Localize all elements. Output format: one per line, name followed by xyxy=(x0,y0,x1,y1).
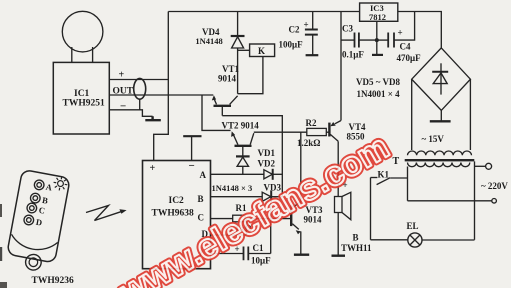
svg-text:A: A xyxy=(200,170,207,180)
transistor VT3 9014 xyxy=(291,132,301,254)
svg-text:1.2kΩ: 1.2kΩ xyxy=(297,138,320,148)
svg-text:0.1μF: 0.1μF xyxy=(342,50,364,60)
svg-text:TWH9638: TWH9638 xyxy=(152,209,194,219)
wire IC1 minus xyxy=(109,110,152,117)
wire VT1 base to diode bus xyxy=(222,116,282,197)
wire bridge AC right xyxy=(469,79,471,150)
ground (VT3 emitter) xyxy=(294,253,309,255)
IC2 TWH9638 box xyxy=(143,161,211,269)
relay K box xyxy=(238,44,275,57)
IC3 7812 box xyxy=(360,3,398,21)
ground (IC3) xyxy=(372,54,383,56)
wire K bottom to VT1 collector xyxy=(238,57,263,94)
ground (IC1 minus) xyxy=(145,116,161,120)
svg-text:VT1: VT1 xyxy=(222,64,240,74)
diode VD3 xyxy=(262,191,282,203)
capacitor C2 xyxy=(305,12,318,55)
bridge rectifier VD5-VD8 xyxy=(412,48,471,111)
terminal (220V top) xyxy=(486,163,492,169)
svg-text:−: − xyxy=(120,101,126,113)
wire 12V drop to IC1/IC2 xyxy=(154,12,169,161)
diode VD1 xyxy=(236,156,250,174)
resistor R1 xyxy=(211,215,291,222)
wire IC3 out rail segment xyxy=(398,12,442,48)
wire primary bottom to 220V terminal xyxy=(408,200,492,202)
capacitor C1 xyxy=(211,247,271,261)
connector ellipse on OUT wire xyxy=(134,78,146,99)
stem from ellipse xyxy=(139,99,141,109)
wire IC2 pin B xyxy=(211,196,263,198)
svg-text:1N4148 × 3: 1N4148 × 3 xyxy=(212,183,253,193)
diode VD2 xyxy=(264,169,282,180)
remote inner arc xyxy=(10,234,58,253)
wire IC1 plus to 12V rail drop xyxy=(109,79,168,81)
IC2 minus pin to ground bar xyxy=(191,137,193,161)
switch K1 xyxy=(371,178,408,240)
svg-text:K: K xyxy=(258,46,265,56)
wire IC2 pin A bus xyxy=(211,173,264,175)
svg-text:+: + xyxy=(150,163,156,174)
svg-text:K1: K1 xyxy=(378,169,390,179)
resistor R2 xyxy=(307,128,329,135)
wire IC2 pin D xyxy=(211,219,247,235)
wire OUT branch down to VT2 emitter xyxy=(202,95,231,130)
transformer core xyxy=(405,159,475,161)
svg-text:VD5 ~ VD8: VD5 ~ VD8 xyxy=(356,77,401,87)
svg-text:B: B xyxy=(198,194,204,204)
svg-text:VD1: VD1 xyxy=(258,148,276,158)
ground (speaker) xyxy=(332,254,346,256)
button B xyxy=(30,193,41,204)
svg-text:10μF: 10μF xyxy=(251,256,271,266)
transformer T primary winding xyxy=(408,163,470,167)
svg-text:7812: 7812 xyxy=(369,12,386,22)
svg-text:VT2 9014: VT2 9014 xyxy=(222,121,260,131)
remote control TWH9236 body xyxy=(5,169,70,273)
svg-text:TWH11: TWH11 xyxy=(341,243,372,253)
diode VD4 xyxy=(231,12,245,94)
svg-text:+: + xyxy=(304,20,309,30)
svg-text:1N4148: 1N4148 xyxy=(195,36,222,46)
ground (C2) xyxy=(306,54,319,56)
capacitor C3 xyxy=(341,33,377,48)
svg-text:C4: C4 xyxy=(400,42,411,52)
svg-text:C2: C2 xyxy=(289,25,300,35)
svg-text:~ 220V: ~ 220V xyxy=(481,181,508,191)
svg-text:TWH9236: TWH9236 xyxy=(32,276,74,286)
svg-text:C3: C3 xyxy=(342,24,353,34)
LED sun symbol xyxy=(52,175,68,191)
speaker B TWH11 xyxy=(335,192,351,255)
microphone bulb on IC1 xyxy=(62,11,103,62)
button D xyxy=(23,214,34,225)
svg-text:IC1: IC1 xyxy=(74,89,90,99)
wire primary right down to EL xyxy=(474,161,476,239)
wire VD3 cathode down to VT3 base / C1 xyxy=(270,202,272,253)
transistor VT4 8550 xyxy=(329,121,340,197)
watermark www.elecfans.com xyxy=(113,128,396,288)
button C xyxy=(26,202,37,213)
svg-text:VD2: VD2 xyxy=(258,158,276,168)
svg-text:−: − xyxy=(189,160,195,172)
wire bridge AC left xyxy=(411,79,413,150)
capacitor C4 xyxy=(377,12,415,48)
button A xyxy=(34,179,45,190)
svg-text:C1: C1 xyxy=(253,243,264,253)
svg-text:470μF: 470μF xyxy=(397,53,422,63)
wire primary left down xyxy=(407,167,409,201)
svg-text:EL: EL xyxy=(407,221,419,231)
ground (bridge) xyxy=(440,110,442,120)
svg-text:IC2: IC2 xyxy=(169,196,185,206)
svg-text:TWH9251: TWH9251 xyxy=(63,99,105,109)
transformer T secondary winding xyxy=(408,151,472,155)
wire IC1 OUT to VT1 emitter xyxy=(109,94,213,96)
scan artifact left edge xyxy=(0,247,2,261)
top supply rail xyxy=(168,11,359,13)
IC1 TWH9251 box xyxy=(53,62,109,134)
svg-text:1N4001 × 4: 1N4001 × 4 xyxy=(357,89,401,99)
svg-text:C: C xyxy=(198,213,205,223)
svg-text:R2: R2 xyxy=(306,118,317,128)
node junction dot (IC3 gnd) xyxy=(375,38,379,42)
terminal (220V bottom) xyxy=(492,199,497,204)
svg-text:9014: 9014 xyxy=(218,74,237,84)
lightning arrow to IC2 xyxy=(86,206,127,221)
svg-text:9014: 9014 xyxy=(304,215,323,225)
svg-text:~ 15V: ~ 15V xyxy=(422,134,445,144)
svg-text:+: + xyxy=(398,28,403,38)
keyring circle xyxy=(24,253,42,271)
wire 12V input drop to VT4 emitter xyxy=(340,12,342,121)
transistor VT1 9014 xyxy=(212,95,238,116)
transistor VT2 9014 xyxy=(231,131,254,156)
IC3 ground pin xyxy=(376,21,378,54)
svg-text:B: B xyxy=(353,233,359,243)
lamp EL xyxy=(371,233,475,247)
wire to 220V top terminal xyxy=(475,165,486,167)
svg-text:100μF: 100μF xyxy=(279,40,304,50)
svg-text:VT4: VT4 xyxy=(349,122,367,132)
wire VT2 collector to R2 xyxy=(254,131,307,133)
